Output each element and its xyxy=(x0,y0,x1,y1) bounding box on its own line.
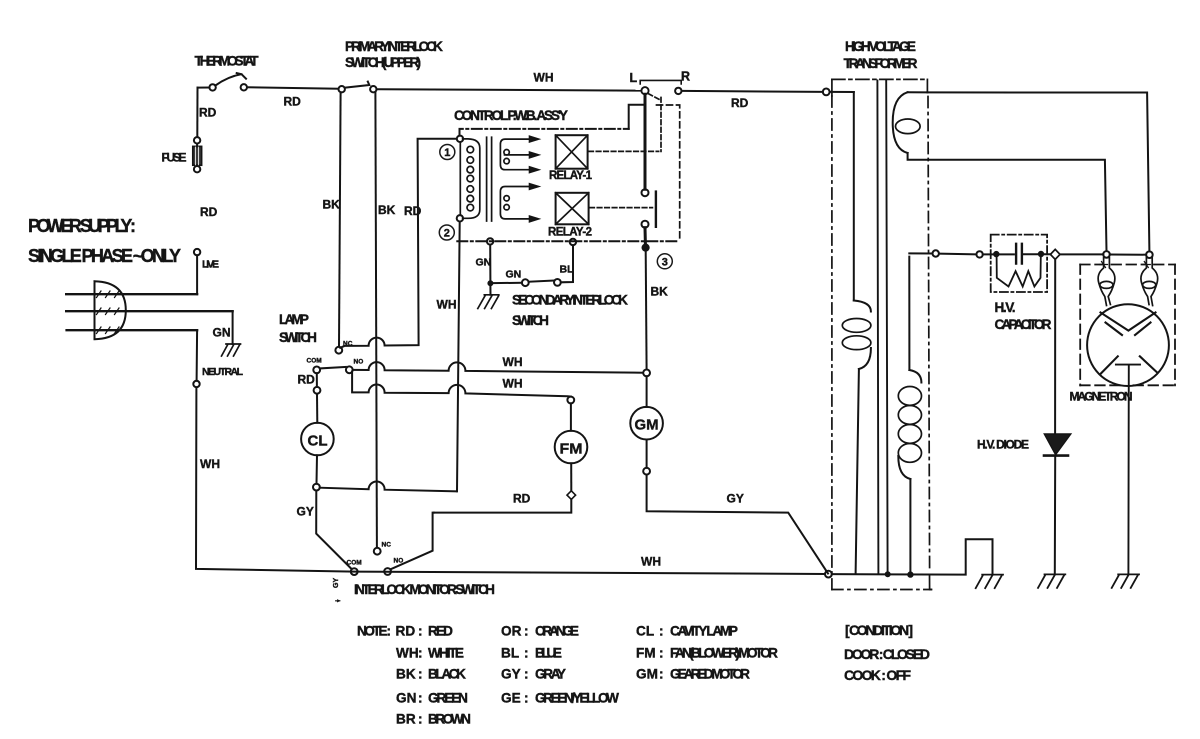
relay contact fixed bar xyxy=(655,192,657,227)
dashed link: relay-1 to door contact xyxy=(589,150,659,152)
svg-text:ORANGE: ORANGE xyxy=(535,624,579,639)
svg-text:OR: OR xyxy=(501,624,522,639)
svg-text:FUSE: FUSE xyxy=(162,151,187,165)
node marker circled 3 xyxy=(657,254,672,269)
node circle on HV lead xyxy=(933,250,939,256)
svg-text:BL: BL xyxy=(501,646,519,661)
svg-text:LIVE: LIVE xyxy=(202,259,219,271)
svg-text:L: L xyxy=(630,71,638,85)
node: GM bottom contact xyxy=(643,468,650,475)
node: GM top contact on WH wire xyxy=(643,370,650,377)
svg-text:GE: GE xyxy=(501,691,521,706)
wire RD: fuse to LIVE node xyxy=(196,144,198,147)
H.V. capacitor box (dash-dot) xyxy=(991,235,1047,292)
svg-text:RD: RD xyxy=(404,204,422,218)
svg-text:2: 2 xyxy=(444,228,450,240)
wire WH: primary interlock to node L xyxy=(377,89,642,90)
node: FM top contact xyxy=(567,397,574,404)
junction dot (cap right) xyxy=(1038,251,1044,257)
primary interlock switch (upper) xyxy=(339,82,377,93)
HV transformer secondary winding xyxy=(898,257,921,572)
svg-text:DOOR : CLOSED: DOOR : CLOSED xyxy=(844,646,930,662)
wire: top wire to magnetron right filament xyxy=(927,92,1149,251)
svg-text:INTERLOCK MONITOR SWITCH: INTERLOCK MONITOR SWITCH xyxy=(354,582,495,597)
svg-text:SWITCH: SWITCH xyxy=(279,330,317,345)
svg-text::: : xyxy=(659,624,664,639)
magnetron left filament stem xyxy=(1098,258,1115,306)
svg-text:RELAY-2: RELAY-2 xyxy=(548,227,592,239)
magnetron anode vanes (lower) xyxy=(1100,356,1157,374)
wire: GM contact down to motor xyxy=(646,376,648,407)
svg-text:WH: WH xyxy=(200,457,220,471)
arrowheads secondary 2 xyxy=(529,183,539,222)
control transformer secondary 2 (with output arrows) xyxy=(500,187,530,219)
ground (H.V. diode) xyxy=(1038,574,1065,588)
wire WH: lamp NO drop to FM top (hops) xyxy=(352,372,571,397)
svg-text:NEUTRAL: NEUTRAL xyxy=(202,366,244,378)
svg-text:SWITCH: SWITCH xyxy=(512,313,549,328)
svg-text:GREEN/YELLOW: GREEN/YELLOW xyxy=(535,691,619,706)
svg-text:HIGH VOLTAGE: HIGH VOLTAGE xyxy=(845,39,916,54)
HV transformer core xyxy=(877,81,887,575)
node: core to chassis dot xyxy=(885,572,890,577)
L-R bracket xyxy=(640,80,681,84)
svg-text:WH: WH xyxy=(503,355,523,369)
node circle at capacitor input xyxy=(976,251,982,257)
dashed actuator box right of contacts xyxy=(648,94,661,152)
svg-text:COM: COM xyxy=(307,358,322,365)
wire: GM bottom xyxy=(646,440,648,468)
lamp switch xyxy=(313,347,352,394)
svg-text:RD: RD xyxy=(513,492,531,506)
wire into capacitor network xyxy=(983,253,1014,255)
svg-text:PRIMARY INTERLOCK: PRIMARY INTERLOCK xyxy=(345,39,443,54)
node marker circled 1 xyxy=(440,145,455,160)
svg-text:LAMP: LAMP xyxy=(279,312,309,327)
svg-text:WH: WH xyxy=(437,298,457,312)
wire GY: CL contact down, diagonal to monitor COM xyxy=(316,491,351,569)
svg-text:RED: RED xyxy=(428,624,453,639)
svg-text:GY: GY xyxy=(297,505,314,519)
svg-text:SINGLE PHASE ~ONLY: SINGLE PHASE ~ONLY xyxy=(28,246,181,266)
control transformer primary terminal 2 xyxy=(457,215,463,221)
node L junction xyxy=(641,87,648,94)
svg-text:NO: NO xyxy=(354,359,364,366)
svg-text:BK: BK xyxy=(651,285,669,299)
wire: board top edge riser to node L line xyxy=(629,105,645,129)
svg-text::: : xyxy=(418,624,423,639)
svg-text:NC: NC xyxy=(382,542,392,549)
svg-text::: : xyxy=(659,667,664,682)
wire GN: board to switch junction xyxy=(489,245,491,284)
junction dot GN xyxy=(488,281,493,286)
svg-text::: : xyxy=(524,646,529,661)
secondary interlock switch xyxy=(493,245,573,286)
wire: LIVE down to plug top prong xyxy=(196,255,198,294)
wire BK: interlock COM down to lamp switch NC xyxy=(339,92,341,346)
wire: RD input to primary xyxy=(830,91,854,93)
svg-text:RD: RD xyxy=(284,95,302,109)
fuse F xyxy=(193,137,202,172)
thermostat TH1 xyxy=(209,73,247,91)
wire: FM bottom xyxy=(570,463,572,490)
svg-text:1: 1 xyxy=(444,147,450,159)
svg-text:CL: CL xyxy=(308,433,328,450)
ground (magnetron) xyxy=(1112,574,1139,588)
magnetron body circle xyxy=(1087,304,1169,386)
H.V. diode D1 xyxy=(1044,434,1071,456)
svg-text::: : xyxy=(418,646,423,661)
svg-text:POWER SUPPLY :: POWER SUPPLY : xyxy=(28,216,136,236)
node: junction to BK drop xyxy=(642,244,649,251)
node: FM bottom diamond xyxy=(567,491,576,500)
wire: plug bottom prong down to NEUTRAL xyxy=(196,330,199,381)
svg-text:CAPACITOR: CAPACITOR xyxy=(995,317,1052,332)
svg-text:NO: NO xyxy=(394,558,404,565)
wire: junction to ground xyxy=(489,286,491,295)
wire: diamond down to diode xyxy=(1054,259,1056,433)
wire between filament terminals xyxy=(1110,254,1146,256)
control transformer primary terminal 1 xyxy=(457,136,463,142)
magnetron anode vanes (upper chevrons) xyxy=(1101,313,1156,336)
magnetron cathode bar and antenna xyxy=(1116,365,1140,575)
svg-text:RD: RD xyxy=(199,106,217,120)
ground (plug GN) xyxy=(222,344,241,356)
svg-text::: : xyxy=(524,691,529,706)
wire RD: FM bottom to corner xyxy=(434,499,572,512)
wire RD: R contact to transformer xyxy=(682,91,823,92)
wire: filament winding bottom lead to magnetron left filament xyxy=(908,153,1107,251)
svg-text:SECONDARY INTERLOCK: SECONDARY INTERLOCK xyxy=(512,293,628,308)
svg-text:H.V.: H.V. xyxy=(995,300,1016,315)
node R contact xyxy=(675,88,681,94)
relay RELAY-2 xyxy=(556,193,589,225)
svg-text:WH: WH xyxy=(503,377,523,391)
svg-text:NC: NC xyxy=(343,341,353,348)
svg-text:FM: FM xyxy=(560,441,583,458)
svg-text:WH: WH xyxy=(534,71,554,85)
svg-text:RELAY-1: RELAY-1 xyxy=(549,170,593,182)
svg-text:BK: BK xyxy=(323,198,341,212)
svg-text:RD: RD xyxy=(731,96,749,110)
magnetron right filament stem xyxy=(1141,258,1158,306)
svg-text:➛: ➛ xyxy=(335,598,341,605)
wire: CL to bottom contact xyxy=(316,455,319,483)
node: magnetron right filament terminal xyxy=(1146,251,1153,258)
relay contact arm (upper, L) xyxy=(644,94,647,189)
svg-text:MAGNETRON: MAGNETRON xyxy=(1070,390,1133,404)
wire: HV secondary top lead out of box xyxy=(909,252,932,254)
svg-text:BL: BL xyxy=(560,264,575,276)
svg-text:GM: GM xyxy=(635,417,659,434)
junction dot (cap left) xyxy=(994,251,1000,257)
plug P1 (power supply plug) xyxy=(66,281,232,339)
control P.W.B. box bottom edge (dash-dot) xyxy=(457,240,679,242)
svg-text::: : xyxy=(418,667,423,682)
wire BK: interlock NO down to monitor switch NC xyxy=(375,92,377,547)
wire WH: terminal 2 down to CL return xyxy=(457,222,460,492)
svg-text::: : xyxy=(524,667,529,682)
fan motor FM xyxy=(555,431,588,464)
node LIVE xyxy=(194,249,200,255)
wire: chassis step to ground xyxy=(832,539,993,574)
node: magnetron left filament terminal xyxy=(1103,251,1110,258)
wire: FM top contact to motor xyxy=(570,403,572,430)
svg-text:R: R xyxy=(681,70,690,84)
wire RD: thermostat to primary interlock xyxy=(247,87,339,88)
svg-text:COOK : OFF: COOK : OFF xyxy=(844,667,911,683)
svg-text:NOTE :: NOTE : xyxy=(357,624,391,639)
svg-text:[ CONDITION ]: [ CONDITION ] xyxy=(845,622,913,638)
svg-text:GRAY: GRAY xyxy=(535,667,566,682)
svg-text::: : xyxy=(418,712,423,727)
wire RD: lamp COM down to cavity lamp xyxy=(316,394,318,423)
svg-text:BLUE: BLUE xyxy=(535,646,562,661)
control transformer secondary 1 (with output arrows) xyxy=(500,139,530,170)
HV transformer box (dash-dot) xyxy=(832,79,932,589)
node: secondary interlock left terminal on board edge xyxy=(487,238,493,244)
dashed link: relay-2 to door contact xyxy=(590,207,653,209)
wire RD: lamp NC right, hop, up to control board terminal 1 xyxy=(340,139,456,348)
svg-text:GY: GY xyxy=(501,667,521,682)
wire BK: contact down to GM contact xyxy=(645,251,648,369)
svg-text:GM: GM xyxy=(636,667,658,682)
svg-text:SWITCH(UPPER): SWITCH(UPPER) xyxy=(345,55,421,70)
wire: filament winding top lead joining top wire xyxy=(908,91,928,93)
wire GY: GM bottom to transformer bottom circle xyxy=(647,475,828,574)
svg-text:GN: GN xyxy=(396,691,416,706)
svg-text:FM: FM xyxy=(636,646,656,661)
wire: live line from thermostat down to fuse xyxy=(196,88,198,137)
svg-text:FAN(BLOWER) MOTOR: FAN(BLOWER) MOTOR xyxy=(670,646,778,661)
svg-text:RD: RD xyxy=(200,205,218,219)
svg-text:RD: RD xyxy=(396,624,416,639)
svg-text:THERMOSTAT: THERMOSTAT xyxy=(195,54,260,69)
node: HV rail diamond junction xyxy=(1050,249,1060,259)
geared motor GM xyxy=(630,407,663,440)
svg-text:BK: BK xyxy=(396,667,416,682)
wire: diamond to magnetron left filament xyxy=(1060,253,1103,255)
control transformer core xyxy=(487,137,492,221)
svg-text:GY: GY xyxy=(727,492,744,506)
svg-text:CAVITY LAMP: CAVITY LAMP xyxy=(670,624,738,639)
svg-text:BLACK: BLACK xyxy=(428,667,466,682)
svg-text:BR: BR xyxy=(396,712,416,727)
cavity lamp CL xyxy=(301,423,334,456)
control P.W.B. box top edge (dash-dot) xyxy=(460,129,629,136)
wire: top-left stub left of thermostat xyxy=(198,87,210,89)
svg-text:GN: GN xyxy=(213,326,231,340)
svg-text:H.V. DIODE: H.V. DIODE xyxy=(977,438,1029,452)
magnetron box (dashed) xyxy=(1080,265,1175,386)
node: transformer RD input circle xyxy=(823,89,830,96)
svg-text:TRANSFORMER: TRANSFORMER xyxy=(844,56,918,71)
node: CL bottom contact xyxy=(313,484,320,491)
wire to capacitor xyxy=(939,253,976,256)
relay contact arm (lower) xyxy=(642,221,649,228)
svg-text:GN: GN xyxy=(506,269,522,281)
svg-text:COM: COM xyxy=(347,560,362,567)
wire WH: lamp NO to GM top contact (hops) xyxy=(353,362,643,373)
svg-text:CONTROL P.W.B. ASS'Y: CONTROL P.W.B. ASS'Y xyxy=(454,108,568,123)
bleeder resistor (zigzag) xyxy=(997,256,1041,287)
svg-text::: : xyxy=(524,624,529,639)
control transformer primary coil xyxy=(460,139,480,218)
svg-text:CL: CL xyxy=(636,624,654,639)
svg-text:WHITE: WHITE xyxy=(428,646,464,661)
arrowheads secondary 1 xyxy=(529,136,539,173)
HV transformer primary winding xyxy=(842,92,871,574)
node: transformer return circle xyxy=(825,571,832,578)
wire WH: neutral down and along the bottom to transformer xyxy=(196,387,825,574)
svg-text::: : xyxy=(418,691,423,706)
node: secondary interlock right terminal on board edge xyxy=(570,239,576,245)
capacitor plates xyxy=(1016,244,1022,264)
interlock monitor switch xyxy=(351,548,391,575)
svg-text::: : xyxy=(659,646,664,661)
ground (secondary interlock) xyxy=(478,295,499,309)
svg-text:RD: RD xyxy=(298,373,316,387)
node NEUTRAL xyxy=(193,381,199,387)
node marker circled 2 xyxy=(439,225,454,240)
wire: diode to ground xyxy=(1054,457,1056,575)
svg-text:BK: BK xyxy=(378,203,396,217)
svg-text:WH: WH xyxy=(641,555,661,569)
wire GN: plug middle prong to ground xyxy=(232,311,234,344)
svg-text:3: 3 xyxy=(662,256,668,268)
HV transformer filament winding xyxy=(893,92,920,153)
wire from plates to right dot xyxy=(1024,253,1051,255)
svg-text:WH: WH xyxy=(396,646,419,661)
svg-text:GY: GY xyxy=(333,578,340,588)
ground (transformer chassis) xyxy=(976,575,1003,589)
svg-text:GEARED MOTOR: GEARED MOTOR xyxy=(670,667,750,682)
svg-text:GN: GN xyxy=(476,257,492,269)
relay RELAY-1 xyxy=(556,135,588,169)
node: secondary to chassis dot xyxy=(908,572,914,578)
wire RD: monitor NO diagonal up to FM return wire xyxy=(391,513,434,570)
wire GY: CL contact right to WH vertical (hop) xyxy=(320,481,457,491)
svg-text:GREEN: GREEN xyxy=(428,691,468,706)
svg-text:BROWN: BROWN xyxy=(428,712,471,727)
